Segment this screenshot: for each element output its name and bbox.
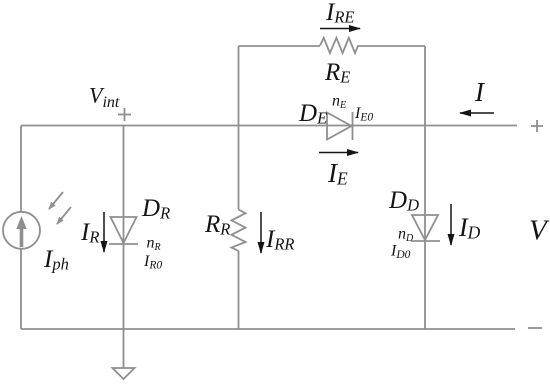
diode D_D bbox=[411, 215, 440, 241]
svg-text:Iph: Iph bbox=[43, 246, 69, 274]
light arrow 2 bbox=[57, 207, 71, 224]
resistor R_E bbox=[320, 38, 358, 53]
svg-text:nD: nD bbox=[398, 226, 414, 245]
resistor R_R bbox=[232, 210, 246, 252]
terminal - bbox=[528, 327, 542, 329]
svg-text:ID: ID bbox=[458, 213, 481, 243]
arrow I_R bbox=[103, 212, 105, 252]
wire branch D_D bbox=[424, 126, 426, 330]
terminal + bbox=[531, 120, 543, 132]
svg-text:IE: IE bbox=[327, 158, 348, 189]
svg-text:DR: DR bbox=[141, 195, 170, 223]
arrow I_E bbox=[319, 152, 358, 154]
svg-text:RE: RE bbox=[324, 59, 350, 87]
svg-text:DD: DD bbox=[388, 187, 419, 215]
wire top loop right vertical bbox=[424, 46, 426, 126]
current source arrow bbox=[16, 216, 26, 247]
wire left branch lower bbox=[20, 249, 22, 330]
wire branch R_R upper bbox=[238, 126, 240, 210]
svg-text:Vint: Vint bbox=[89, 83, 120, 112]
svg-text:I: I bbox=[474, 77, 486, 107]
arrow I_RE bbox=[320, 28, 360, 30]
wire left branch upper bbox=[20, 126, 22, 213]
wire top loop left horizontal bbox=[239, 45, 321, 47]
svg-text:IRR: IRR bbox=[265, 226, 295, 254]
svg-text:nR: nR bbox=[147, 235, 161, 254]
svg-text:IR: IR bbox=[80, 219, 99, 247]
svg-text:IRE: IRE bbox=[325, 0, 355, 27]
svg-text:V: V bbox=[529, 215, 550, 247]
svg-text:DE: DE bbox=[298, 100, 327, 128]
arrow I_RR bbox=[260, 212, 262, 253]
ground stem bbox=[123, 329, 125, 368]
diode D_R bbox=[109, 217, 138, 244]
wire top loop left vertical bbox=[238, 46, 240, 126]
arrow I_D bbox=[450, 204, 452, 245]
svg-text:IR0: IR0 bbox=[143, 253, 162, 272]
svg-text:nE: nE bbox=[332, 93, 346, 112]
wire branch D_R bbox=[123, 126, 125, 330]
arrow I (output current) bbox=[460, 112, 494, 114]
svg-text:RR: RR bbox=[204, 211, 230, 239]
light arrow 1 bbox=[49, 192, 63, 209]
ground triangle bbox=[113, 368, 135, 379]
svg-text:ID0: ID0 bbox=[390, 243, 411, 262]
svg-text:IE0: IE0 bbox=[354, 105, 373, 124]
wire bottom rail bbox=[21, 328, 515, 330]
wire top rail bbox=[21, 125, 517, 127]
current source I_ph circle bbox=[3, 212, 40, 249]
wire branch R_R lower bbox=[238, 251, 240, 329]
node + marker under V_int bbox=[118, 108, 131, 121]
wire top loop right horizontal bbox=[358, 45, 425, 47]
diode D_E bbox=[327, 112, 353, 140]
